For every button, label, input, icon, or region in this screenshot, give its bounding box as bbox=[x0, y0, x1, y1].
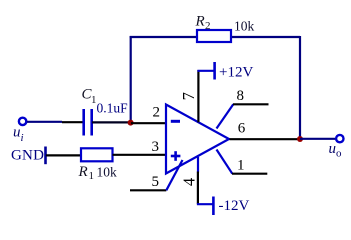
wire GND to R1 bbox=[46, 154, 81, 156]
resistor R1 bbox=[81, 148, 113, 161]
svg-text:0.1uF: 0.1uF bbox=[97, 101, 129, 116]
svg-text:10k: 10k bbox=[97, 164, 118, 179]
svg-text:1: 1 bbox=[89, 170, 95, 182]
pin 7 horizontal wire bbox=[197, 70, 214, 72]
wire node B to output bbox=[300, 138, 336, 140]
wire node A to pin 2 bbox=[131, 122, 166, 124]
wire input black segment bbox=[62, 121, 83, 123]
wire input to capacitor bbox=[27, 121, 62, 123]
svg-text:u: u bbox=[13, 125, 21, 141]
svg-text:7: 7 bbox=[179, 92, 198, 100]
svg-text:6: 6 bbox=[238, 121, 246, 137]
svg-text:4: 4 bbox=[180, 178, 199, 186]
output terminal circle bbox=[336, 135, 343, 142]
pin 4 upper blue segment bbox=[197, 157, 199, 173]
+12V terminal bar bbox=[213, 62, 216, 80]
capacitor C1 bbox=[84, 109, 92, 136]
svg-text:+12V: +12V bbox=[219, 64, 253, 80]
op-amp minus sign bbox=[171, 120, 180, 123]
label C1 bbox=[82, 87, 97, 107]
node A junction dot bbox=[128, 120, 134, 126]
svg-text:8: 8 bbox=[237, 88, 245, 104]
pin 4 horizontal wire bbox=[197, 203, 214, 205]
wire feedback right vertical bbox=[299, 36, 301, 139]
ground terminal bar bbox=[44, 147, 47, 165]
svg-text:R: R bbox=[78, 164, 88, 180]
pin 1 diagonal lead bbox=[217, 150, 233, 174]
svg-text:2: 2 bbox=[153, 104, 161, 120]
input terminal circle bbox=[19, 118, 26, 125]
svg-text:1: 1 bbox=[237, 158, 245, 174]
pin 6 wire apex to node B bbox=[230, 138, 301, 140]
op-amp U1 triangle bbox=[166, 105, 229, 174]
wire capacitor to node A bbox=[92, 121, 130, 123]
svg-text:o: o bbox=[336, 148, 342, 160]
pin 4 vertical wire bbox=[197, 172, 199, 205]
node B junction dot bbox=[297, 136, 303, 142]
svg-text:10k: 10k bbox=[234, 19, 255, 34]
svg-text:R: R bbox=[195, 14, 205, 30]
-12V terminal bar bbox=[212, 197, 215, 216]
svg-text:2: 2 bbox=[205, 20, 211, 32]
svg-text:u: u bbox=[329, 141, 337, 157]
wire R1 to pin 3 bbox=[113, 154, 166, 156]
resistor R2 bbox=[197, 30, 231, 42]
svg-text:-12V: -12V bbox=[219, 198, 250, 214]
pin 8 diagonal lead bbox=[217, 104, 234, 128]
svg-text:GND: GND bbox=[11, 148, 44, 164]
wire feedback top horizontal bbox=[130, 36, 300, 38]
label R1 bbox=[78, 164, 95, 182]
wire feedback left vertical bbox=[130, 36, 132, 123]
pin 8 stub wire bbox=[233, 103, 269, 105]
svg-text:5: 5 bbox=[152, 174, 160, 190]
pin 1 stub wire bbox=[232, 173, 267, 175]
pin 5 diagonal lead bbox=[166, 160, 182, 190]
op-amp plus sign bbox=[171, 151, 181, 161]
pin 7 vertical wire bbox=[197, 70, 199, 122]
svg-text:3: 3 bbox=[152, 139, 160, 155]
label uo bbox=[329, 141, 343, 160]
svg-text:i: i bbox=[21, 132, 24, 144]
pin 5 stub wire bbox=[130, 189, 166, 191]
